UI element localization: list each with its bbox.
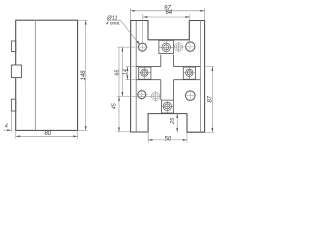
left view tab 3 <box>11 99 15 111</box>
svg-text:4 отв.: 4 отв. <box>106 21 121 27</box>
boss symbol right <box>184 67 196 79</box>
boss symbol top <box>159 41 173 54</box>
left view tab 2 (straddles edge) <box>11 65 21 78</box>
svg-text:80: 80 <box>44 131 51 137</box>
dim 65 line <box>121 47 123 96</box>
dim 84 extension lines <box>141 14 143 42</box>
svg-text:14: 14 <box>122 69 128 75</box>
hole bottom-left <box>138 91 146 99</box>
dim 148 extension lines <box>78 19 88 21</box>
left view outline <box>16 20 78 130</box>
dim 4 line <box>4 129 12 131</box>
hole bottom-right <box>186 91 196 101</box>
dim 97 extension lines <box>129 8 131 20</box>
square left <box>139 67 151 79</box>
dim 87 extension lines <box>205 66 214 68</box>
dim 84 line <box>143 16 190 18</box>
note Ø11 4 holes leader shelf <box>107 19 121 21</box>
left view tab 1 <box>11 41 15 52</box>
svg-text:64: 64 <box>165 10 172 16</box>
boss symbol left <box>139 67 151 79</box>
svg-text:4: 4 <box>5 123 8 129</box>
svg-text:148: 148 <box>81 70 87 81</box>
square bottom <box>162 100 174 113</box>
hidden boss bottom-left <box>150 91 160 101</box>
dim 14 extension lines <box>126 66 137 68</box>
svg-text:87: 87 <box>207 95 213 102</box>
note Ø11 4 holes leader <box>120 20 139 45</box>
hole top-right <box>186 42 195 51</box>
dim 14 line <box>126 67 128 80</box>
right view outline <box>131 21 205 133</box>
dim 65 extension line at hole row <box>117 46 135 48</box>
hole top-left <box>138 43 146 51</box>
cross slot outline <box>136 55 200 101</box>
left view inner edge line <box>34 20 36 130</box>
svg-text:Ø11: Ø11 <box>106 15 118 21</box>
dim 45 line <box>118 47 120 132</box>
dim 97 line <box>130 10 204 12</box>
square right <box>183 67 195 79</box>
dim 148 line <box>85 20 87 130</box>
boss symbol bottom <box>162 100 174 113</box>
hidden boss top-right <box>173 42 183 52</box>
dim 50 extension lines <box>147 132 149 142</box>
dim 80 line <box>16 135 78 137</box>
dim 87 line <box>211 67 213 133</box>
dim 25 line <box>176 114 178 133</box>
svg-text:50: 50 <box>165 136 172 142</box>
svg-text:65: 65 <box>115 69 121 76</box>
svg-text:25: 25 <box>170 117 176 125</box>
dim 80 extension lines <box>15 130 17 138</box>
svg-text:45: 45 <box>112 102 118 109</box>
dim 50 line <box>148 139 187 141</box>
dim 45 extension lines <box>117 95 151 97</box>
right view inner line left <box>135 21 137 133</box>
dim 4 (tab) extension line <box>10 111 12 132</box>
square top <box>159 40 174 53</box>
right view inner line right <box>200 21 202 133</box>
